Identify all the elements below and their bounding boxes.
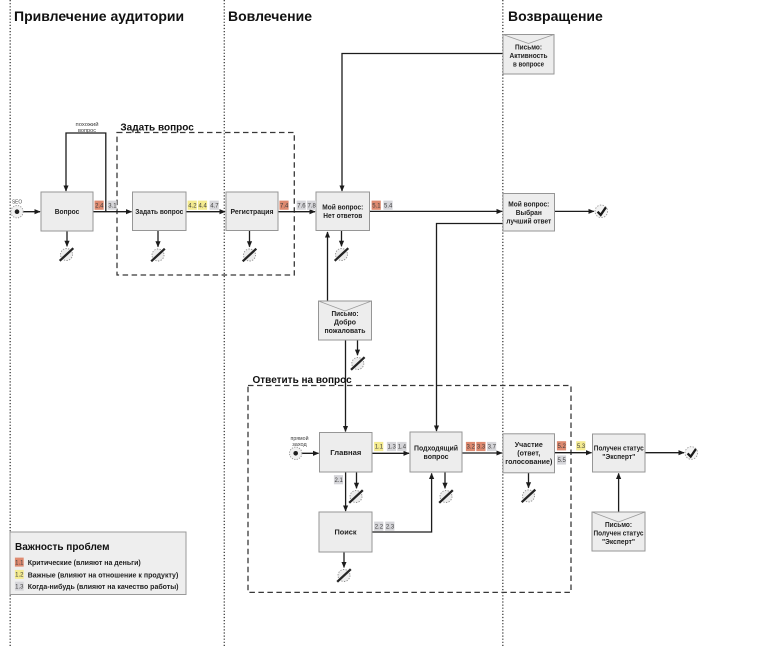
wire Вопрос to Задать вопрос xyxy=(93,211,132,213)
label 5.5 xyxy=(557,455,567,464)
pencil arrow Письмо Добро xyxy=(357,340,359,355)
svg-text:лучший ответ: лучший ответ xyxy=(506,216,551,225)
wire loop похожий вопрос xyxy=(66,121,106,212)
wire прямой заход to Главная xyxy=(302,452,319,454)
node прямой заход (start) xyxy=(290,435,309,459)
label 3.7 xyxy=(487,442,497,451)
wire Поиск to Подходящий вопрос xyxy=(372,473,432,532)
box Вопрос xyxy=(41,192,93,231)
wire Главная to Подходящий вопрос xyxy=(372,452,409,454)
svg-text:7.6: 7.6 xyxy=(297,203,306,209)
pencil icon below Участие xyxy=(522,490,536,503)
pencil icon below Мой вопрос xyxy=(335,248,349,261)
pencil icon below Регистрация xyxy=(243,249,257,262)
label 1.3 xyxy=(387,442,397,451)
box Мой вопрос: Нет ответов xyxy=(316,192,370,231)
column divider 2 xyxy=(223,0,225,647)
svg-text:голосование): голосование) xyxy=(505,457,552,466)
svg-text:Вопрос: Вопрос xyxy=(55,207,80,216)
svg-text:4.2: 4.2 xyxy=(188,203,197,209)
svg-text:1.1: 1.1 xyxy=(15,560,24,566)
pencil arrow Участие xyxy=(528,473,530,488)
box Регистрация xyxy=(226,192,278,231)
label 3.3 xyxy=(476,442,486,451)
wire Главная to Поиск xyxy=(345,472,347,511)
column divider 3 xyxy=(502,0,504,647)
svg-text:2.1: 2.1 xyxy=(335,478,344,484)
node end check 1 xyxy=(595,205,608,218)
svg-text:1.1: 1.1 xyxy=(375,445,384,451)
svg-text:Задать вопрос: Задать вопрос xyxy=(135,207,183,216)
label 5.4 xyxy=(383,201,393,210)
label 1.4 xyxy=(397,442,406,451)
label 5.1 xyxy=(372,201,382,210)
label 2.1 xyxy=(334,475,344,484)
legend item Когда-нибудь xyxy=(15,582,179,591)
label 3.1 xyxy=(108,201,118,210)
label 7.8 xyxy=(307,201,317,210)
svg-text:"Эксперт": "Эксперт" xyxy=(602,452,635,461)
pencil arrow Мой вопрос xyxy=(341,231,343,247)
node end check 2 xyxy=(685,447,698,460)
wire Регистрация to Мой вопрос xyxy=(278,211,315,213)
svg-text:3.7: 3.7 xyxy=(488,445,497,451)
label 3.2 xyxy=(466,442,476,451)
pencil icon below Главная xyxy=(349,490,363,503)
label 5.2 xyxy=(557,441,567,450)
svg-text:1.3: 1.3 xyxy=(15,584,24,590)
svg-text:Когда-нибудь (влияют на качест: Когда-нибудь (влияют на качество работы) xyxy=(28,583,179,591)
label 4.2 xyxy=(188,201,198,210)
label 2.2 xyxy=(374,522,384,531)
svg-text:1.2: 1.2 xyxy=(15,573,24,579)
wire SEO to Вопрос xyxy=(23,211,40,213)
pencil arrow Подходящий вопрос xyxy=(444,472,446,488)
wire Выбран лучший ответ to end xyxy=(555,210,594,212)
wire Получен статус to end xyxy=(645,452,684,454)
legend Важность проблем xyxy=(10,532,186,595)
svg-text:похожий: похожий xyxy=(76,121,99,128)
svg-text:пожаловать: пожаловать xyxy=(325,326,366,335)
svg-text:Важные (влияют на отношение к: Важные (влияют на отношение к продукту) xyxy=(28,572,179,579)
svg-text:5.5: 5.5 xyxy=(558,458,567,464)
label 5.3 xyxy=(576,441,586,450)
svg-text:Возвращение: Возвращение xyxy=(508,8,603,24)
wire Письмо Добро to Главная xyxy=(345,340,347,432)
svg-text:5.4: 5.4 xyxy=(384,203,393,209)
pencil icon below Поиск xyxy=(337,569,351,582)
svg-text:Регистрация: Регистрация xyxy=(231,207,274,216)
label 4.7 xyxy=(210,201,220,210)
pencil arrow Главная xyxy=(356,472,358,488)
wire Задать вопрос to Регистрация xyxy=(186,211,225,213)
svg-text:7.4: 7.4 xyxy=(280,203,289,209)
envelope Письмо: Получен статус Эксперт xyxy=(592,512,645,551)
box Главная xyxy=(320,433,373,473)
svg-text:SEO: SEO xyxy=(12,200,22,206)
svg-text:Важность проблем: Важность проблем xyxy=(15,541,110,553)
svg-text:1.4: 1.4 xyxy=(398,445,407,451)
pencil icon below Письмо Добро xyxy=(351,357,365,370)
pencil arrow Регистрация xyxy=(249,231,251,247)
label 1.1 xyxy=(374,442,384,451)
svg-text:Поиск: Поиск xyxy=(335,528,357,537)
svg-text:2.2: 2.2 xyxy=(375,524,384,530)
label 7.6 xyxy=(297,201,307,210)
wire Мой вопрос to Выбран лучший ответ xyxy=(370,210,503,212)
wire Письмо Эксперт to Получен статус xyxy=(618,473,620,512)
envelope Письмо: Активность в вопросе xyxy=(503,35,554,75)
svg-text:1.3: 1.3 xyxy=(388,445,397,451)
pencil arrow Поиск xyxy=(343,552,345,567)
envelope Письмо: Добро пожаловать xyxy=(319,301,372,340)
label 7.4 xyxy=(279,201,289,210)
label 4.4 xyxy=(198,201,208,210)
label 2.4 xyxy=(95,201,105,210)
legend item Важные xyxy=(15,570,178,579)
box Подходящий вопрос xyxy=(410,432,462,472)
group Ответить на вопрос xyxy=(248,375,571,592)
box Поиск xyxy=(319,512,372,552)
box Получен статус Эксперт xyxy=(593,434,646,472)
wire Участие to Получен статус xyxy=(555,452,592,454)
wire Выбран лучший ответ to Подходящий вопрос xyxy=(437,224,504,432)
svg-text:Вовлечение: Вовлечение xyxy=(228,8,312,24)
box Мой вопрос: Выбран лучший ответ xyxy=(503,194,555,232)
svg-text:Ответить на вопрос: Ответить на вопрос xyxy=(253,375,353,386)
pencil icon below Подходящий вопрос xyxy=(439,490,453,503)
column divider 1 xyxy=(9,0,11,647)
svg-text:Главная: Главная xyxy=(330,448,361,457)
svg-text:прямой: прямой xyxy=(291,435,309,442)
pencil icon below Вопрос xyxy=(60,248,74,261)
pencil icon below Задать вопрос xyxy=(151,249,165,262)
label 2.3 xyxy=(385,522,395,531)
svg-text:5.1: 5.1 xyxy=(372,203,381,209)
svg-text:Нет ответов: Нет ответов xyxy=(323,211,362,220)
wire Подходящий вопрос to Участие xyxy=(462,452,502,454)
svg-text:3.1: 3.1 xyxy=(108,203,117,209)
node SEO (start) xyxy=(11,200,23,218)
svg-text:вопрос: вопрос xyxy=(78,128,96,134)
pencil arrow Вопрос xyxy=(66,231,68,246)
wire Письмо Активность to Мой вопрос xyxy=(342,54,503,192)
svg-text:5.3: 5.3 xyxy=(577,444,586,450)
legend item Критические xyxy=(15,558,141,567)
pencil arrow Задать вопрос xyxy=(157,231,159,247)
group Задать вопрос xyxy=(117,123,294,276)
svg-text:4.4: 4.4 xyxy=(199,203,208,209)
svg-text:"Эксперт": "Эксперт" xyxy=(602,537,635,546)
svg-text:Критические (влияют на деньги): Критические (влияют на деньги) xyxy=(28,560,141,567)
svg-text:3.3: 3.3 xyxy=(477,445,486,451)
box Задать вопрос xyxy=(133,192,187,231)
svg-text:вопрос: вопрос xyxy=(424,452,449,461)
svg-text:заход: заход xyxy=(292,442,307,448)
svg-text:2.3: 2.3 xyxy=(386,524,395,530)
svg-text:4.7: 4.7 xyxy=(210,203,219,209)
svg-text:2.4: 2.4 xyxy=(95,203,104,209)
box Участие (ответ, голосование) xyxy=(503,434,555,473)
svg-text:5.2: 5.2 xyxy=(558,444,567,450)
svg-text:Привлечение аудитории: Привлечение аудитории xyxy=(14,8,184,24)
svg-text:7.8: 7.8 xyxy=(308,203,317,209)
svg-text:3.2: 3.2 xyxy=(467,445,476,451)
svg-text:в вопросе: в вопросе xyxy=(513,60,544,69)
wire Письмо Добро to Мой вопрос xyxy=(327,232,329,301)
